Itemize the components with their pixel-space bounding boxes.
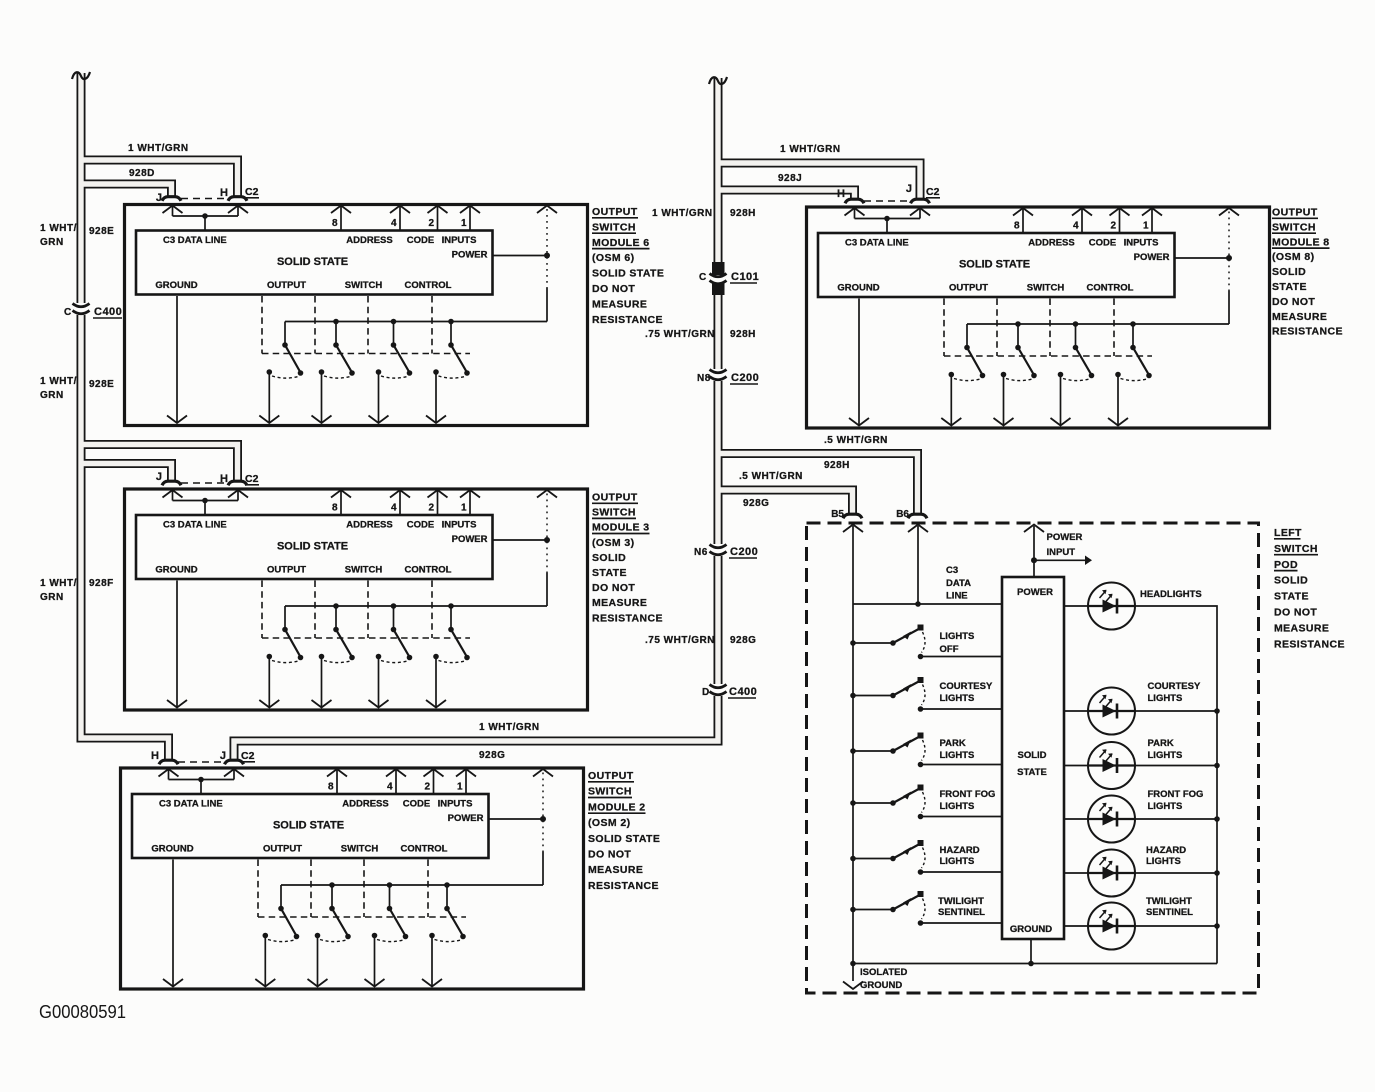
svg-text:DO NOT: DO NOT	[592, 582, 635, 594]
svg-text:SWITCH: SWITCH	[592, 507, 636, 519]
svg-text:RESISTANCE: RESISTANCE	[1274, 638, 1345, 650]
svg-text:928J: 928J	[778, 173, 802, 184]
svg-text:MEASURE: MEASURE	[588, 864, 643, 876]
svg-text:GRN: GRN	[40, 390, 64, 401]
svg-text:POWER: POWER	[1017, 587, 1053, 598]
svg-text:(OSM 8): (OSM 8)	[1272, 251, 1314, 263]
svg-text:HAZARD: HAZARD	[1146, 845, 1186, 856]
svg-text:(OSM 3): (OSM 3)	[592, 537, 634, 549]
svg-text:SWITCH: SWITCH	[1272, 221, 1316, 233]
svg-text:LEFT: LEFT	[1274, 527, 1302, 539]
svg-text:SENTINEL: SENTINEL	[1146, 907, 1193, 918]
svg-text:HAZARD: HAZARD	[940, 845, 980, 856]
svg-text:D: D	[702, 687, 710, 698]
svg-text:STATE: STATE	[1272, 281, 1307, 293]
svg-text:SOLID STATE: SOLID STATE	[592, 268, 664, 280]
svg-text:1 WHT/: 1 WHT/	[40, 223, 77, 234]
svg-text:G00080591: G00080591	[39, 1002, 126, 1022]
svg-text:GROUND: GROUND	[1010, 924, 1052, 935]
svg-text:1 WHT/GRN: 1 WHT/GRN	[479, 722, 540, 733]
svg-text:B5: B5	[831, 509, 844, 520]
svg-text:J: J	[156, 192, 162, 204]
svg-text:DO NOT: DO NOT	[1274, 607, 1317, 619]
svg-text:(OSM 2): (OSM 2)	[588, 817, 630, 829]
svg-text:H: H	[220, 473, 228, 485]
svg-text:C101: C101	[731, 271, 759, 283]
svg-text:N6: N6	[694, 547, 708, 558]
svg-text:STATE: STATE	[1017, 767, 1047, 778]
svg-text:LIGHTS: LIGHTS	[1148, 693, 1183, 704]
svg-text:C400: C400	[94, 306, 122, 318]
svg-text:C400: C400	[729, 686, 757, 698]
svg-text:SOLID STATE: SOLID STATE	[588, 833, 660, 845]
svg-text:MODULE 3: MODULE 3	[592, 522, 649, 534]
svg-text:928F: 928F	[89, 578, 114, 589]
svg-text:SOLID: SOLID	[1274, 575, 1308, 587]
svg-text:C200: C200	[730, 546, 758, 558]
svg-text:H: H	[220, 187, 228, 199]
svg-text:928G: 928G	[730, 635, 756, 646]
svg-text:HEADLIGHTS: HEADLIGHTS	[1140, 589, 1202, 600]
svg-text:COURTESY: COURTESY	[1148, 681, 1201, 692]
svg-text:H: H	[151, 750, 159, 762]
svg-text:ISOLATED: ISOLATED	[860, 967, 907, 978]
svg-text:MEASURE: MEASURE	[592, 597, 647, 609]
svg-text:C: C	[699, 272, 707, 283]
svg-text:OUTPUT: OUTPUT	[1272, 207, 1318, 219]
svg-text:C: C	[64, 307, 72, 318]
svg-text:.75 WHT/GRN: .75 WHT/GRN	[645, 329, 715, 340]
svg-text:INPUT: INPUT	[1047, 547, 1076, 558]
svg-text:C200: C200	[731, 372, 759, 384]
svg-text:928D: 928D	[129, 168, 155, 179]
svg-text:STATE: STATE	[592, 567, 627, 579]
svg-text:TWILIGHT: TWILIGHT	[1146, 896, 1192, 907]
svg-text:SOLID: SOLID	[592, 552, 626, 564]
svg-text:C2: C2	[241, 750, 255, 762]
svg-text:STATE: STATE	[1274, 591, 1309, 603]
svg-text:GROUND: GROUND	[860, 980, 902, 991]
svg-text:LIGHTS: LIGHTS	[1146, 856, 1181, 867]
svg-text:SOLID: SOLID	[1017, 750, 1046, 761]
svg-text:B6: B6	[896, 509, 909, 520]
svg-text:J: J	[220, 750, 226, 762]
svg-text:1 WHT/GRN: 1 WHT/GRN	[128, 143, 189, 154]
svg-text:TWILIGHT: TWILIGHT	[938, 896, 984, 907]
svg-text:928H: 928H	[824, 460, 850, 471]
svg-text:LIGHTS: LIGHTS	[940, 750, 975, 761]
svg-text:OFF: OFF	[940, 644, 959, 655]
svg-text:DATA: DATA	[946, 578, 971, 589]
svg-text:GRN: GRN	[40, 237, 64, 248]
svg-text:LIGHTS: LIGHTS	[940, 801, 975, 812]
svg-text:C2: C2	[245, 186, 259, 198]
svg-text:1 WHT/GRN: 1 WHT/GRN	[780, 144, 841, 155]
svg-text:928G: 928G	[479, 750, 505, 761]
svg-text:MEASURE: MEASURE	[1272, 311, 1327, 323]
svg-text:J: J	[156, 471, 162, 483]
svg-text:.75 WHT/GRN: .75 WHT/GRN	[645, 635, 715, 646]
svg-text:928H: 928H	[730, 329, 756, 340]
svg-text:928G: 928G	[743, 498, 769, 509]
svg-text:LIGHTS: LIGHTS	[1148, 750, 1183, 761]
svg-text:DO NOT: DO NOT	[1272, 296, 1315, 308]
svg-text:1 WHT/: 1 WHT/	[40, 578, 77, 589]
svg-text:N8: N8	[697, 373, 711, 384]
svg-text:MEASURE: MEASURE	[592, 298, 647, 310]
svg-text:LIGHTS: LIGHTS	[940, 856, 975, 867]
svg-text:LIGHTS: LIGHTS	[940, 693, 975, 704]
svg-text:928H: 928H	[730, 208, 756, 219]
svg-text:SOLID: SOLID	[1272, 266, 1306, 278]
svg-text:FRONT FOG: FRONT FOG	[1148, 789, 1204, 800]
svg-text:LINE: LINE	[946, 591, 968, 602]
svg-text:POWER: POWER	[1047, 532, 1083, 543]
svg-text:OUTPUT: OUTPUT	[588, 770, 634, 782]
svg-text:C3: C3	[946, 565, 958, 576]
svg-text:1 WHT/GRN: 1 WHT/GRN	[652, 208, 713, 219]
svg-text:LIGHTS: LIGHTS	[940, 631, 975, 642]
svg-text:C2: C2	[245, 473, 259, 485]
svg-text:PARK: PARK	[1148, 738, 1174, 749]
svg-text:SENTINEL: SENTINEL	[938, 907, 985, 918]
svg-text:LIGHTS: LIGHTS	[1148, 801, 1183, 812]
svg-text:928E: 928E	[89, 226, 114, 237]
svg-text:(OSM 6): (OSM 6)	[592, 252, 634, 264]
svg-text:COURTESY: COURTESY	[940, 681, 993, 692]
svg-text:SWITCH: SWITCH	[1274, 543, 1318, 555]
svg-text:RESISTANCE: RESISTANCE	[592, 314, 663, 326]
svg-text:FRONT FOG: FRONT FOG	[940, 789, 996, 800]
svg-text:OUTPUT: OUTPUT	[592, 492, 638, 504]
svg-text:DO NOT: DO NOT	[592, 283, 635, 295]
svg-text:MODULE 2: MODULE 2	[588, 801, 645, 813]
svg-text:H: H	[837, 188, 845, 200]
svg-text:DO NOT: DO NOT	[588, 849, 631, 861]
svg-text:.5 WHT/GRN: .5 WHT/GRN	[739, 471, 803, 482]
svg-text:RESISTANCE: RESISTANCE	[588, 880, 659, 892]
svg-text:GRN: GRN	[40, 592, 64, 603]
svg-text:POD: POD	[1274, 559, 1298, 571]
svg-text:J: J	[906, 183, 912, 195]
svg-text:C2: C2	[926, 186, 940, 198]
svg-text:928E: 928E	[89, 379, 114, 390]
svg-text:RESISTANCE: RESISTANCE	[1272, 326, 1343, 338]
svg-text:OUTPUT: OUTPUT	[592, 206, 638, 218]
svg-text:1 WHT/: 1 WHT/	[40, 376, 77, 387]
svg-text:MODULE 6: MODULE 6	[592, 237, 649, 249]
svg-text:RESISTANCE: RESISTANCE	[592, 612, 663, 624]
svg-text:MEASURE: MEASURE	[1274, 622, 1329, 634]
svg-text:.5 WHT/GRN: .5 WHT/GRN	[824, 435, 888, 446]
svg-text:PARK: PARK	[940, 738, 966, 749]
svg-text:SWITCH: SWITCH	[592, 221, 636, 233]
svg-text:SWITCH: SWITCH	[588, 786, 632, 798]
svg-text:MODULE 8: MODULE 8	[1272, 236, 1329, 248]
